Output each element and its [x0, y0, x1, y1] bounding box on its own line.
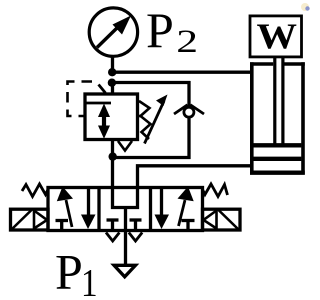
reducing valve double arrow: [102, 112, 106, 130]
check valve: [184, 107, 194, 117]
left solenoid box: [11, 209, 49, 230]
S2 tank line: [124, 208, 127, 231]
node junction dot 2: [108, 79, 116, 87]
tank line: [124, 231, 127, 265]
drain V below valve left: [106, 233, 119, 242]
cylinder body right wall: [301, 62, 305, 174]
stray color smudge top right: [301, 3, 309, 11]
gauge stem wire: [111, 57, 114, 75]
S3 blocked port T: [182, 219, 195, 222]
wire A-line valve to cylinder: [138, 166, 252, 189]
S1 down arrow: [87, 189, 90, 218]
svg-text:P: P: [55, 244, 83, 300]
divider S1/S2: [97, 188, 100, 231]
wire top line to cylinder: [112, 71, 252, 74]
adjustability arrow: [145, 101, 165, 144]
pilot tick at valve top: [99, 85, 106, 94]
piston rod: [273, 57, 276, 144]
S1 tilted up arrow: [66, 200, 72, 227]
S2 blocked port right: [130, 218, 142, 221]
reducing valve inner line: [87, 102, 112, 105]
tank triangle: [114, 265, 136, 277]
cylinder body left wall: [250, 62, 254, 174]
S1 blocked port T: [56, 219, 69, 222]
left spring: [22, 184, 48, 197]
right spring: [203, 184, 228, 197]
adjustable spring of reducing valve: [139, 101, 151, 139]
svg-text:W: W: [257, 16, 298, 56]
S2 P/A bridge: [113, 188, 138, 208]
wire check branch vertical upper: [187, 81, 190, 107]
svg-text:1: 1: [81, 261, 98, 300]
wire second line to check branch: [112, 81, 190, 84]
wire check branch vertical lower: [187, 118, 190, 159]
pilot dashed line: [68, 82, 93, 117]
S3 down arrow: [160, 189, 163, 218]
cylinder bottom edge: [250, 170, 305, 174]
piston: [254, 143, 302, 147]
S2 blocked port left: [107, 218, 119, 221]
node junction dot 3: [109, 152, 117, 160]
svg-text:2: 2: [176, 24, 198, 60]
svg-text:P: P: [146, 2, 174, 58]
wire check branch bottom: [111, 156, 191, 159]
drain arrow V below valve: [118, 141, 132, 151]
pressure reducing valve body: [85, 94, 138, 140]
gauge needle: [97, 26, 120, 48]
pressure gauge P2: [89, 8, 137, 56]
wire main vertical below reducing valve: [111, 139, 114, 190]
wire main vertical gauge to valve: [111, 83, 114, 95]
right solenoid box: [203, 209, 241, 230]
cylinder top edge: [250, 62, 273, 65]
S3 tilted up arrow: [179, 200, 186, 226]
node junction dot 1: [108, 68, 116, 76]
directional valve body: [48, 188, 203, 231]
weight box W: [250, 16, 302, 57]
drain V below valve right: [129, 233, 142, 242]
divider S2/S3: [149, 188, 152, 231]
